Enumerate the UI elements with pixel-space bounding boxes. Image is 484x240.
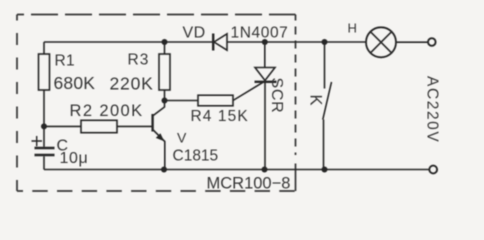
wire: lamp to top terminal	[396, 41, 428, 43]
wire: R3 top drop	[164, 42, 166, 54]
wire: capacitor bottom to bottom rail	[43, 156, 45, 169]
transistor base bar	[151, 114, 153, 132]
node: SCR cathode on bottom rail	[262, 167, 268, 173]
capacitor C plate bottom	[35, 154, 55, 157]
wire: top rail right segment (diode VD to lamp)	[227, 41, 367, 43]
svg-text:R1: R1	[55, 53, 75, 70]
svg-text:220K: 220K	[110, 74, 154, 94]
capacitor C plate top	[35, 147, 55, 150]
svg-text:R2 200K: R2 200K	[70, 102, 144, 120]
capacitor polarity plus sign	[32, 136, 43, 146]
svg-text:680K: 680K	[54, 73, 96, 93]
transistor emitter lead with arrow	[153, 130, 165, 170]
transistor emitter arrowhead	[156, 133, 164, 141]
SCR triangle	[255, 68, 275, 81]
resistor R3 220K	[159, 54, 170, 90]
svg-text:10μ: 10μ	[60, 150, 89, 167]
wire: R1 bottom to junction	[43, 90, 45, 126]
switch K upper wire	[324, 42, 326, 89]
terminal top right	[428, 38, 436, 46]
svg-text:H: H	[348, 21, 357, 36]
wire: R3 bottom to node	[164, 90, 166, 101]
svg-text:MCR100−8: MCR100−8	[207, 175, 291, 193]
svg-text:K: K	[307, 95, 325, 106]
svg-text:R4 15K: R4 15K	[191, 108, 249, 125]
node: R1/R2/C junction	[41, 123, 47, 129]
svg-text:AC220V: AC220V	[424, 76, 441, 143]
transistor V C1815 : collector lead	[153, 101, 164, 116]
wire: top rail left segment (R1 top corner to diode VD)	[44, 41, 213, 43]
svg-text:VD: VD	[183, 25, 206, 42]
wire: R2 right to transistor base	[117, 125, 152, 127]
resistor R2 200K	[81, 120, 117, 132]
lamp H circle	[366, 27, 396, 57]
wire: R1 top drop from rail	[43, 42, 45, 54]
svg-text:C1815: C1815	[173, 148, 219, 165]
SCR anode wire	[264, 42, 266, 68]
svg-text:R3: R3	[128, 52, 150, 69]
terminal bottom right	[429, 166, 437, 174]
wire: node to R4 left	[165, 100, 199, 102]
svg-text:SCR: SCR	[268, 78, 285, 114]
svg-text:V: V	[177, 130, 187, 146]
diode VD 1N4007 cathode bar	[212, 34, 214, 51]
wire: bottom rail	[44, 169, 429, 171]
node: R3 top on rail	[162, 39, 168, 45]
svg-text:1N4007: 1N4007	[231, 25, 289, 42]
dashed module border: right edge lower solid dash to corner	[295, 164, 297, 192]
dashed module border: right edge upper dashed part	[295, 15, 297, 156]
lamp H cross	[370, 32, 391, 53]
dashed module border MCR100-8 box: top edge	[17, 14, 296, 16]
node: lamp/switch junction on top rail	[322, 39, 328, 45]
node: switch bottom on rail	[322, 167, 328, 173]
node: SCR anode on top rail	[262, 39, 268, 45]
SCR cathode bar	[255, 81, 277, 83]
wire: R4 right to SCR gate (diagonal)	[233, 82, 263, 100]
resistor R1 680K	[39, 54, 50, 90]
resistor R4 15K	[198, 95, 233, 106]
node: emitter on bottom rail	[161, 167, 167, 173]
node: R3/R4/collector junction	[162, 98, 168, 104]
SCR cathode wire to bottom rail	[264, 82, 266, 170]
diode VD triangle	[214, 34, 227, 50]
wire: junction to R2 left	[44, 125, 81, 127]
dashed module border: bottom edge	[17, 190, 296, 192]
switch K lower wire	[323, 120, 325, 170]
switch K blade	[323, 82, 332, 120]
dashed module border: left edge	[16, 15, 18, 192]
capacitor C 10u : wire from junction down	[43, 126, 45, 146]
